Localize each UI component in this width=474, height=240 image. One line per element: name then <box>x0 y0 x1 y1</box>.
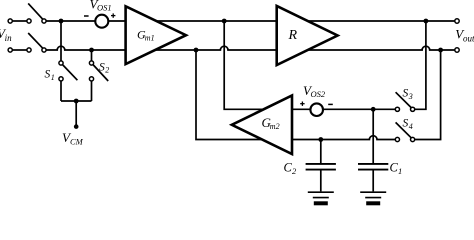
wire S2 lower lead <box>91 81 93 101</box>
svg-text:1: 1 <box>398 166 402 176</box>
svg-text:2: 2 <box>292 166 297 176</box>
capacitor C2 <box>306 164 336 170</box>
junction VCM common node <box>74 99 79 104</box>
svg-text:m2: m2 <box>270 122 280 131</box>
svg-text:S: S <box>99 61 105 73</box>
switch input chopper bottom <box>27 33 46 52</box>
node VCM terminal dot <box>74 124 79 129</box>
wire bottom main line with crossover hops at x=61, 224, 426 <box>46 46 455 50</box>
wire feedback bottom branch (from bottom line at x=196 down and right to S4, hop at x=373) <box>196 50 395 140</box>
svg-text:R: R <box>288 28 298 43</box>
svg-text:S: S <box>403 118 409 130</box>
wire feedback top branch (from top line at x=224 down and right to S3) <box>224 21 395 109</box>
ground (below C2) <box>308 192 334 203</box>
ground (below C1) <box>360 192 386 203</box>
svg-text:1: 1 <box>51 73 55 82</box>
switch S2 <box>89 61 108 81</box>
svg-text:S: S <box>403 88 409 100</box>
op-amp Gm1 (transconductance stage) <box>126 6 186 64</box>
voltage source VOS2 <box>300 102 333 116</box>
svg-text:OS2: OS2 <box>311 89 326 99</box>
wire S4 to output bottom line vertical at x=441 <box>415 50 441 140</box>
wire C2 bottom lead <box>320 170 322 191</box>
svg-text:CM: CM <box>70 136 84 146</box>
junction on bottom line at S4 return x=441 <box>438 48 443 53</box>
svg-text:in: in <box>5 33 13 43</box>
wire C2 top lead <box>320 140 322 164</box>
switch S4 <box>395 122 414 141</box>
voltage source VOS1 <box>84 13 115 27</box>
svg-text:2: 2 <box>105 66 109 75</box>
junction C2 top <box>318 137 323 142</box>
svg-text:S: S <box>45 69 51 81</box>
svg-text:3: 3 <box>408 92 413 101</box>
junction C1 top <box>371 107 376 112</box>
junction on bottom line at S2 branch <box>89 48 94 53</box>
wire C1 bottom lead <box>372 170 374 191</box>
op-amp Gm2 (feedback transconductance, points left) <box>232 96 292 155</box>
junction on top line at S1 branch <box>59 19 64 24</box>
wire S1 lower lead <box>60 81 62 101</box>
wire S1-S2 common node horizontal <box>61 100 92 102</box>
node Vout+ output terminal <box>455 19 459 23</box>
capacitor C1 <box>358 164 388 170</box>
wire S1 branch vertical (from top line junction down to S1) <box>60 21 62 61</box>
op-amp R (output stage) <box>277 6 338 65</box>
wire C1 top lead (from junction on top feedback wire, passes hop at y=139.5) <box>372 109 374 163</box>
wire S2 branch vertical (from bottom line junction down to S2) <box>91 50 93 61</box>
node Vout- output terminal <box>455 48 459 52</box>
node Vin+ input terminal <box>8 19 12 23</box>
wire VCM stub <box>75 101 77 126</box>
wire S3 to output top line vertical at x=426 <box>415 21 426 109</box>
wire bottom input segment (Vin- port to chopper switch) <box>12 49 27 51</box>
wire top main line (chopper to Vout+ terminal, passes under Gm1 and R) <box>46 20 455 22</box>
junction on top line at S3 return x=426 <box>424 19 429 24</box>
wire top input segment (Vin+ port to chopper switch) <box>12 20 27 22</box>
svg-text:4: 4 <box>409 122 413 131</box>
junction on top line at feedback takeoff x=224 <box>222 19 227 24</box>
svg-text:m1: m1 <box>145 33 155 42</box>
switch input chopper top <box>27 3 46 23</box>
svg-text:out: out <box>463 34 474 44</box>
svg-text:OS1: OS1 <box>97 3 112 13</box>
node Vin- input terminal <box>8 48 12 52</box>
switch S3 <box>395 92 414 111</box>
switch S1 <box>59 61 78 81</box>
junction on bottom line at feedback takeoff x=196 <box>194 48 199 53</box>
